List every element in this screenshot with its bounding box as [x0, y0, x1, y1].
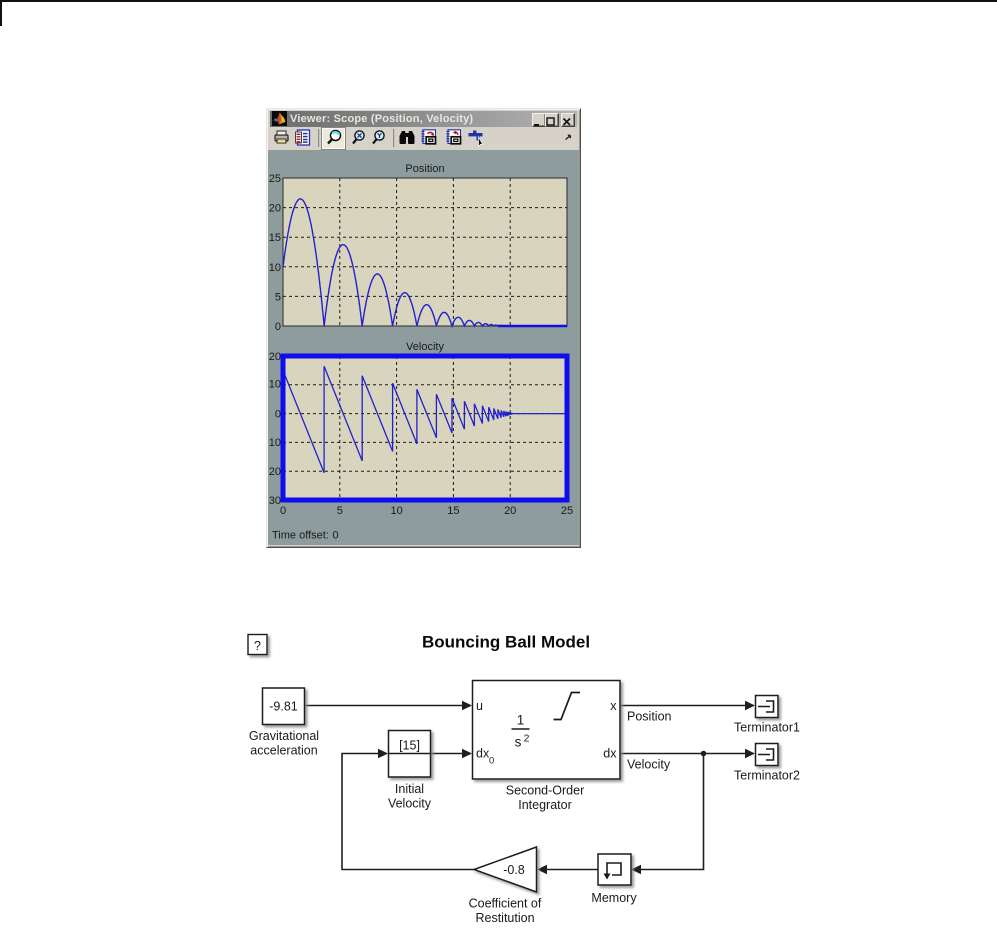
svg-text:Integrator: Integrator [518, 798, 572, 812]
svg-text:Restitution: Restitution [475, 911, 534, 925]
svg-text:1: 1 [517, 713, 525, 728]
svg-text:Bouncing Ball Model: Bouncing Ball Model [422, 633, 590, 652]
svg-text:10: 10 [269, 378, 281, 390]
svg-text:Velocity: Velocity [406, 341, 444, 353]
svg-text:10: 10 [269, 262, 281, 274]
svg-text:5: 5 [275, 291, 281, 303]
svg-text:?: ? [254, 639, 261, 653]
svg-text:0: 0 [275, 321, 281, 333]
svg-text:Position: Position [405, 163, 444, 175]
svg-text:25: 25 [269, 173, 281, 185]
svg-text:Velocity: Velocity [388, 797, 432, 811]
svg-text:dx: dx [603, 747, 617, 761]
svg-text:Time offset:: Time offset: [272, 530, 329, 542]
svg-text:u: u [476, 699, 483, 713]
svg-text:Initial: Initial [395, 782, 424, 796]
svg-text:20: 20 [269, 203, 281, 215]
svg-text:25: 25 [561, 505, 573, 517]
svg-text:0: 0 [333, 530, 339, 542]
svg-text:2: 2 [524, 733, 530, 745]
svg-text:15: 15 [269, 232, 281, 244]
svg-text:20: 20 [269, 466, 281, 478]
svg-text:dx: dx [476, 747, 490, 761]
svg-text:Velocity: Velocity [627, 758, 671, 772]
svg-text:acceleration: acceleration [250, 744, 317, 758]
svg-text:Coefficient of: Coefficient of [469, 897, 542, 911]
svg-text:-9.81: -9.81 [269, 700, 298, 714]
svg-text:20: 20 [269, 351, 281, 363]
svg-text:0: 0 [280, 505, 286, 517]
svg-text:x: x [610, 699, 617, 713]
svg-text:Second-Order: Second-Order [506, 784, 585, 798]
svg-text:10: 10 [269, 437, 281, 449]
svg-text:s: s [515, 735, 522, 750]
svg-text:20: 20 [504, 505, 516, 517]
svg-text:[15]: [15] [399, 739, 420, 753]
svg-text:Memory: Memory [591, 891, 637, 905]
svg-text:5: 5 [337, 505, 343, 517]
svg-text:Terminator2: Terminator2 [734, 769, 800, 783]
svg-text:0: 0 [489, 756, 494, 767]
svg-text:-0.8: -0.8 [503, 863, 525, 877]
svg-text:Terminator1: Terminator1 [734, 721, 800, 735]
svg-text:15: 15 [447, 505, 459, 517]
svg-text:Position: Position [627, 710, 672, 724]
svg-text:0: 0 [275, 409, 281, 421]
svg-text:Gravitational: Gravitational [249, 729, 319, 743]
svg-text:10: 10 [390, 505, 402, 517]
